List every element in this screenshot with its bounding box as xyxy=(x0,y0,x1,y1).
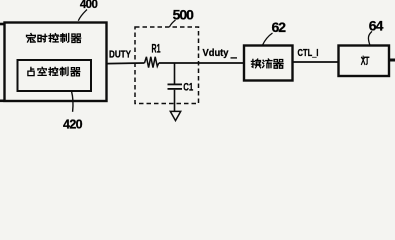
svg-text:64: 64 xyxy=(369,17,384,33)
duty controller box 420 xyxy=(18,60,92,91)
wire DUTY xyxy=(107,62,145,65)
wire CTL_I xyxy=(293,61,339,63)
edge tick top-left xyxy=(0,23,4,26)
svg-text:R1: R1 xyxy=(152,43,161,55)
svg-text:Vduty: Vduty xyxy=(203,47,229,59)
underscore after Vduty xyxy=(231,57,238,59)
text: 定时控制器 xyxy=(27,34,81,43)
svg-text:C1: C1 xyxy=(183,82,193,94)
RC filter dashed box 500 xyxy=(135,27,199,104)
svg-text:500: 500 xyxy=(173,7,195,23)
resistor R1 xyxy=(145,57,159,68)
text: 灯 xyxy=(361,56,368,64)
junction node xyxy=(174,63,176,84)
leader line 420 xyxy=(72,91,74,112)
ground xyxy=(170,111,180,120)
inverter box 62 xyxy=(244,46,293,81)
wire from R1 to inverter xyxy=(159,62,244,64)
text: 占空控制器 xyxy=(28,67,80,76)
edge tick bottom-left xyxy=(0,100,4,103)
capacitor C1 xyxy=(168,84,183,89)
wire capacitor to ground xyxy=(174,90,176,112)
leader line 62 xyxy=(263,33,273,45)
text: 换流器 xyxy=(251,59,283,68)
leader line 64 xyxy=(368,31,372,44)
timing controller box 400 xyxy=(5,23,107,102)
svg-text:400: 400 xyxy=(80,0,98,11)
svg-text:DUTY: DUTY xyxy=(109,50,131,61)
leader line 400 xyxy=(78,10,87,21)
svg-text:420: 420 xyxy=(63,118,83,130)
svg-text:62: 62 xyxy=(272,19,287,35)
lamp box 64 xyxy=(339,46,390,77)
wire stub right of lamp xyxy=(389,59,395,62)
leader line 500 xyxy=(170,20,176,27)
svg-text:CTL_I: CTL_I xyxy=(298,48,319,59)
